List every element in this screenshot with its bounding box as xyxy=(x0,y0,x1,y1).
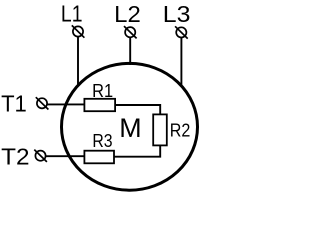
svg-text:R3: R3 xyxy=(92,130,112,151)
svg-text:L1: L1 xyxy=(61,0,83,26)
svg-text:T1: T1 xyxy=(1,90,27,116)
svg-text:R1: R1 xyxy=(92,80,113,101)
svg-text:R2: R2 xyxy=(170,119,191,140)
svg-text:M: M xyxy=(119,113,141,143)
svg-text:T2: T2 xyxy=(1,144,29,170)
svg-text:L3: L3 xyxy=(163,1,191,27)
svg-text:L2: L2 xyxy=(114,1,141,27)
